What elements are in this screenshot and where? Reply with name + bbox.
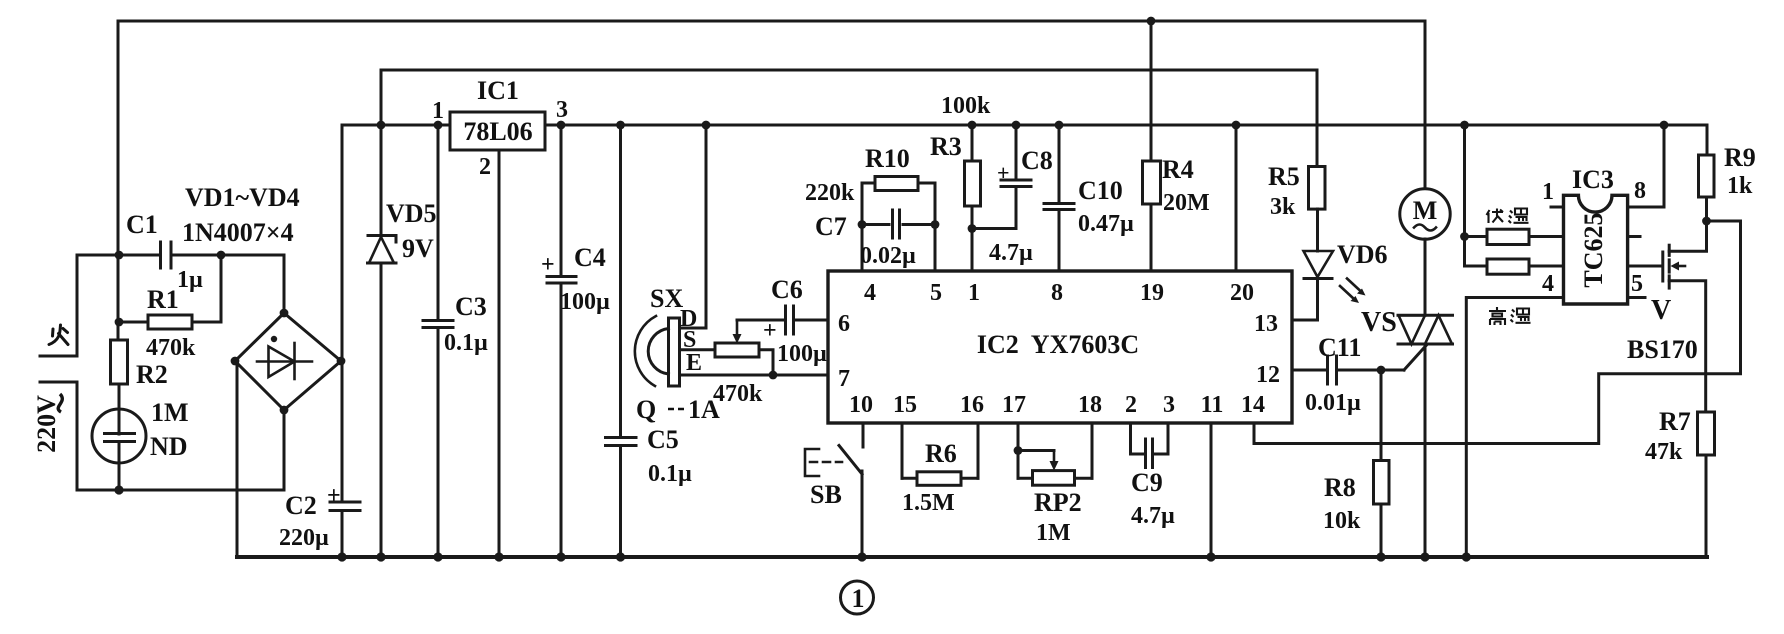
junction node R1/R2 (115, 318, 124, 327)
junction node VD5 ground (376, 552, 385, 561)
svg-text:+: + (327, 483, 341, 509)
svg-text:1N4007×4: 1N4007×4 (182, 218, 294, 247)
svg-text:0.1µ: 0.1µ (648, 461, 692, 487)
wire IC2 pin13 to VD6 (1292, 319, 1318, 322)
junction node C3 rail (434, 121, 443, 130)
wire IC2 pin18 drop (1091, 423, 1094, 478)
capacitor C8 electrolytic (972, 125, 1031, 229)
svg-text:2: 2 (479, 154, 491, 180)
svg-text:VD6: VD6 (1337, 240, 1388, 269)
svg-text:1M: 1M (1036, 520, 1071, 546)
wire wiper to C6 (737, 319, 784, 322)
wire VD5 feeder drop (380, 70, 383, 125)
svg-text:C6: C6 (771, 275, 803, 304)
svg-text:IC2 YX7603C: IC2 YX7603C (977, 330, 1139, 359)
svg-text:19: 19 (1140, 280, 1164, 306)
svg-text:16: 16 (960, 392, 984, 418)
svg-text:R5: R5 (1268, 162, 1300, 191)
wire IC3 pin5 stub (1628, 296, 1645, 299)
junction node thermistor top (1460, 232, 1469, 241)
junction node pin11 ground (1206, 552, 1215, 561)
junction node SB ground (857, 552, 866, 561)
svg-text:20M: 20M (1163, 190, 1210, 216)
svg-text:E: E (686, 350, 702, 376)
junction node bridge bottom (280, 406, 289, 415)
wire left live drop to R2 (117, 21, 120, 341)
svg-text:R1: R1 (147, 285, 179, 314)
junction node C8 rail (1012, 121, 1021, 130)
svg-text:3k: 3k (1270, 194, 1296, 220)
resistor 低温 (low temp) (1465, 229, 1564, 244)
transistor Q1: MOSFET V BS170 (1663, 221, 1707, 412)
wire bottom input neutral run (77, 489, 284, 492)
wire R5 feeder drop (1316, 70, 1319, 167)
svg-text:C7: C7 (815, 212, 847, 241)
svg-text:1M: 1M (151, 398, 189, 427)
wire 9V rail into IC1 pin1 (342, 124, 450, 127)
svg-text:220V: 220V (32, 395, 61, 453)
wire IC2 pin15 drop (901, 423, 904, 478)
svg-text:11: 11 (1201, 392, 1224, 418)
wire IC3 pin8 lead to +6V rail (1628, 125, 1664, 207)
wire bridge bottom arm to neutral (283, 410, 286, 490)
junction node C1/live (115, 251, 124, 260)
svg-text:+: + (997, 160, 1010, 185)
svg-text:10: 10 (849, 392, 873, 418)
svg-text:100µ: 100µ (777, 341, 827, 367)
svg-text:M: M (1413, 196, 1438, 225)
bridge rectifier VD1-VD4 (235, 313, 341, 410)
svg-text:Q: Q (636, 395, 656, 424)
neon lamp ND (92, 409, 146, 490)
junction node pin8 rail (1660, 121, 1669, 130)
svg-text:15: 15 (893, 392, 917, 418)
resistor R7 (1698, 412, 1715, 557)
svg-text:+: + (763, 318, 777, 344)
svg-text:220µ: 220µ (279, 525, 329, 551)
resistor R10 (862, 177, 935, 191)
junction node SX-D rail (702, 121, 711, 130)
svg-text:V: V (1651, 295, 1671, 326)
svg-text:1µ: 1µ (177, 267, 203, 293)
resistor R9 (1699, 125, 1715, 221)
wire bridge left arm drop (236, 361, 239, 557)
label 低温 glyphs (1487, 209, 1529, 224)
wire IC2 pin3 drop (1154, 423, 1168, 454)
svg-text:C11: C11 (1318, 333, 1361, 362)
junction node C5 rail (616, 121, 625, 130)
wire motor to triac (1424, 239, 1427, 315)
label 火 (live) hand-drawn glyph (49, 325, 68, 345)
svg-text:C4: C4 (574, 243, 606, 272)
svg-text:3: 3 (556, 97, 568, 123)
resistor R3 (965, 125, 981, 271)
wire top 220V live rail (118, 20, 1425, 23)
svg-text:IC3: IC3 (1572, 165, 1614, 194)
svg-text:5: 5 (930, 280, 942, 306)
svg-text:C3: C3 (455, 292, 487, 321)
junction node C10 rail (1055, 121, 1064, 130)
capacitor C4 electrolytic (547, 125, 576, 557)
junction node C4 rail (557, 121, 566, 130)
svg-text:R6: R6 (925, 439, 957, 468)
junction node triac ground (1420, 552, 1429, 561)
junction node C11/R8/gate (1377, 366, 1386, 375)
svg-text:C8: C8 (1021, 146, 1053, 175)
svg-text:R4: R4 (1162, 155, 1194, 184)
wire SX E lead to IC2 pin7 (680, 374, 829, 377)
svg-text:18: 18 (1078, 392, 1102, 418)
svg-text:IC1: IC1 (477, 76, 519, 105)
svg-text:C5: C5 (647, 425, 679, 454)
svg-text:3: 3 (1163, 392, 1175, 418)
resistor R2 (111, 340, 128, 409)
wire IC2 pin17 drop (1017, 423, 1020, 478)
junction node IC3 pin4 ground (1462, 552, 1471, 561)
svg-text:R3: R3 (930, 132, 962, 161)
op-amp U1: controller IC2 YX7603C body (828, 271, 1292, 423)
svg-text:VS: VS (1361, 307, 1397, 338)
junction node C5 ground (616, 552, 625, 561)
label 高温 glyphs (1489, 307, 1531, 325)
svg-text:VD5: VD5 (386, 199, 437, 228)
wire live terminal lead 火 (40, 255, 119, 356)
svg-text:14: 14 (1241, 392, 1265, 418)
motor M (1400, 189, 1450, 239)
capacitor C3 (423, 125, 453, 557)
junction node R3/C8/pin1 (968, 224, 977, 233)
svg-text:4: 4 (1542, 271, 1554, 297)
wire IC3 output to gate (1628, 265, 1661, 268)
wire IC2 pin16 drop (977, 423, 980, 478)
svg-text:2: 2 (1125, 392, 1137, 418)
svg-text:100µ: 100µ (560, 289, 610, 315)
svg-text:470k: 470k (713, 381, 763, 407)
capacitor C11 (1328, 356, 1405, 384)
label mains tilde squiggle (58, 394, 62, 412)
junction node R3 rail (968, 121, 977, 130)
svg-text:ND: ND (150, 432, 188, 461)
junction node R8 ground (1376, 552, 1385, 561)
junction node C2 ground (337, 552, 346, 561)
svg-text:SX: SX (650, 284, 683, 313)
wire IC2 pin4 riser (861, 183, 864, 271)
svg-text:1: 1 (1542, 179, 1554, 205)
svg-text:220k: 220k (805, 180, 855, 206)
resistor R8 (1374, 370, 1390, 557)
svg-text:4: 4 (864, 280, 876, 306)
svg-text:8: 8 (1634, 178, 1646, 204)
junction node pin20 rail (1232, 121, 1241, 130)
svg-text:1: 1 (852, 584, 865, 613)
svg-text:13: 13 (1254, 311, 1278, 337)
svg-text:5: 5 (1631, 271, 1643, 297)
wire triac to ground rail (1424, 344, 1427, 557)
svg-text:0.01µ: 0.01µ (1305, 390, 1361, 416)
svg-text:C2: C2 (285, 491, 317, 520)
circled figure number 1 (841, 581, 874, 614)
resistor R4 (1143, 21, 1161, 271)
sensor SX head (635, 316, 680, 386)
svg-text:C9: C9 (1131, 468, 1163, 497)
svg-text:4.7µ: 4.7µ (1131, 503, 1175, 529)
svg-text:0.02µ: 0.02µ (860, 243, 916, 269)
junction node bridge right (337, 357, 346, 366)
capacitor C2 electrolytic (330, 502, 360, 511)
svg-text:10k: 10k (1323, 508, 1361, 534)
svg-text:VD1~VD4: VD1~VD4 (185, 183, 300, 212)
svg-text:TC625: TC625 (1579, 212, 1608, 287)
wire IC3 pin1 stub (1551, 206, 1564, 209)
junction node neutral bottom (114, 485, 123, 494)
svg-text:R2: R2 (136, 360, 168, 389)
svg-text:8: 8 (1051, 280, 1063, 306)
LED VD6 (1304, 209, 1366, 320)
svg-text:9V: 9V (402, 234, 434, 263)
junction node C3 ground (433, 552, 442, 561)
switch SB (805, 446, 862, 558)
svg-text:17: 17 (1002, 392, 1026, 418)
svg-text:BS170: BS170 (1627, 335, 1698, 364)
svg-text:100k: 100k (941, 93, 991, 119)
regulator IC1 78L06 (450, 112, 545, 150)
svg-text:R10: R10 (865, 144, 910, 173)
svg-text:7: 7 (838, 366, 850, 392)
junction node R9/drain (1702, 217, 1711, 226)
wire SX drain lead to +6V rail (680, 125, 707, 328)
wire IC2 pin20 riser (1235, 125, 1238, 271)
wire IC2 pin11 ground drop (1210, 423, 1213, 557)
wire thermistor feeder drop (1463, 125, 1466, 266)
wire C2 bottom lead (341, 511, 344, 557)
wire IC2 pin5 riser (934, 183, 937, 271)
junction node pin17 wiper (1014, 446, 1023, 455)
capacitor C10 (1044, 125, 1074, 271)
capacitor C1 (119, 242, 284, 313)
svg-text:1k: 1k (1727, 173, 1753, 199)
wire IC2 pin14 run to gate driver (1254, 221, 1741, 444)
zener diode VD5 (368, 125, 397, 557)
capacitor C9 (1146, 439, 1153, 468)
junction node C7 right (931, 220, 940, 229)
svg-text:SB: SB (810, 480, 842, 509)
svg-text:RP2: RP2 (1034, 488, 1082, 517)
svg-text:R9: R9 (1724, 143, 1756, 172)
junction node thermistor rail (1460, 121, 1469, 130)
svg-text:C1: C1 (126, 210, 158, 239)
svg-text:0.1µ: 0.1µ (444, 330, 488, 356)
capacitor C7 (862, 210, 935, 238)
wire IC3 pin4 lead (1466, 298, 1563, 558)
wire ground bottom rail (237, 555, 1707, 559)
potentiometer 470k (715, 320, 773, 375)
wire neutral terminal lead 220V (40, 382, 77, 490)
svg-text:12: 12 (1256, 362, 1280, 388)
junction node E lead / pot (769, 371, 778, 380)
resistor R6 (902, 472, 978, 486)
junction node C1 right/R1 (217, 251, 226, 260)
junction node bridge left (231, 357, 240, 366)
wire IC2 pin10 stub (862, 423, 865, 447)
wire SX S lead (680, 348, 716, 351)
svg-text:1: 1 (968, 280, 980, 306)
comparator IC3 TC625 body (1564, 195, 1628, 304)
junction node IC1 pin2 ground (494, 552, 503, 561)
svg-text:470k: 470k (146, 335, 196, 361)
svg-text:4.7µ: 4.7µ (989, 240, 1033, 266)
junction node bridge top (280, 309, 289, 318)
svg-text:78L06: 78L06 (463, 117, 532, 146)
wire IC2 pin12 stub (1292, 369, 1326, 372)
wire IC1 pin2 ground drop (498, 150, 501, 557)
resistor 高温 (high temp) (1465, 259, 1564, 274)
svg-text:R8: R8 (1324, 473, 1356, 502)
svg-text:+: + (541, 252, 555, 278)
wire +6V rail from IC1 pin3 (545, 124, 1707, 127)
resistor R5 (1309, 167, 1326, 210)
svg-text:6: 6 (838, 311, 850, 337)
wire IC3 nc stub (1628, 235, 1640, 238)
wire VD5 feeder (upper horizontal) (381, 69, 1317, 72)
resistor R1 (119, 255, 221, 329)
svg-text:1.5M: 1.5M (902, 490, 955, 516)
triac VS (1398, 315, 1453, 344)
wire IC2 pin2 drop (1131, 423, 1145, 454)
capacitor C5 (606, 125, 637, 557)
potentiometer RP2 (1018, 451, 1092, 486)
svg-text:0.47µ: 0.47µ (1078, 211, 1134, 237)
svg-text:R7: R7 (1659, 407, 1691, 436)
wire bridge/C2 riser (341, 125, 344, 501)
svg-text:C10: C10 (1078, 176, 1123, 205)
junction node C4 ground (556, 552, 565, 561)
wire triac gate diagonal (1404, 345, 1427, 371)
junction node VD5 rail (377, 121, 386, 130)
wire motor feeder from top rail (1424, 21, 1427, 189)
junction node R4 top rail (1147, 17, 1156, 26)
capacitor C6 electrolytic (786, 306, 829, 334)
svg-text:20: 20 (1230, 280, 1254, 306)
svg-text:1: 1 (432, 98, 444, 124)
junction node C7 left (858, 220, 867, 229)
svg-text:47k: 47k (1645, 439, 1683, 465)
